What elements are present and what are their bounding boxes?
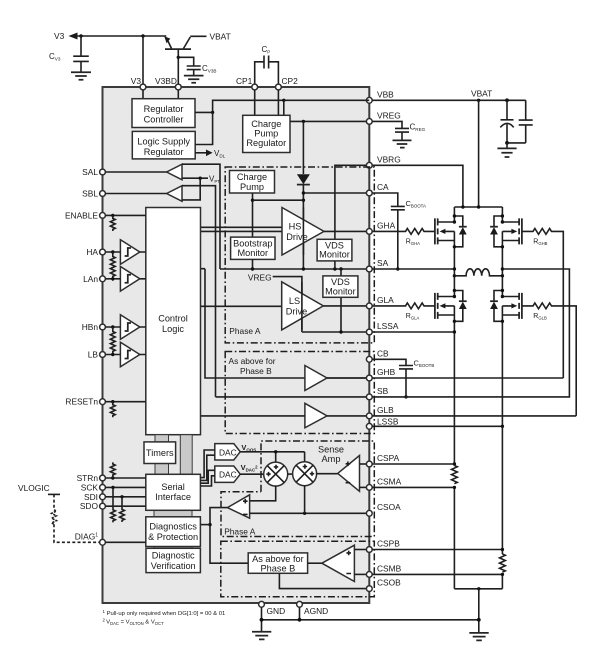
node junction dot SCK <box>111 486 114 489</box>
node junction dot VREG to bootstrap diode <box>302 120 305 123</box>
svg-text:Serial: Serial <box>161 482 185 492</box>
transistor Q_AH (left high-side NFET) <box>435 218 455 244</box>
wire HBn to buffer and control logic <box>105 326 145 328</box>
node junction dot SA vds hs <box>333 267 336 270</box>
bus control logic to serial interface <box>180 435 192 475</box>
node junction dot ENABLE <box>111 214 114 217</box>
label As above for Phase B (drive section) <box>229 356 276 376</box>
wire cap bottoms tie <box>507 142 526 144</box>
node junction dot VBAT bridge feed <box>477 99 480 102</box>
node junction dot CSPB <box>501 548 504 551</box>
node junction dot AGND rail <box>298 618 302 622</box>
node junction dot charge pump tie <box>302 199 305 202</box>
node junction dot SA vds ls <box>339 267 342 270</box>
mixer 2 (multiplier) <box>293 462 317 486</box>
wire CSMA external <box>372 486 454 488</box>
svg-text:DIAG1: DIAG1 <box>75 532 98 542</box>
svg-text:VREG: VREG <box>377 111 401 121</box>
svg-text:V3: V3 <box>131 76 142 86</box>
diagnostics and protection box <box>146 517 201 547</box>
wire LSSA external <box>372 331 454 333</box>
pin GHB <box>366 367 395 381</box>
svg-text:Interface: Interface <box>155 492 191 502</box>
wire mixer1 to mixer2 <box>287 473 293 475</box>
wire CSPB input <box>354 549 366 551</box>
svg-text:As above for: As above for <box>229 356 276 366</box>
wire CSMB external <box>372 573 502 575</box>
wire CSPB external <box>372 549 502 551</box>
pin SCK <box>81 482 106 492</box>
node junction dot LSSA vds <box>339 330 342 333</box>
svg-text:CSMA: CSMA <box>377 476 402 486</box>
resistor VLOGIC pullup (dashed) <box>52 510 57 524</box>
svg-text:Verification: Verification <box>151 561 196 571</box>
node junction dot CSMA <box>453 486 456 489</box>
wire RESETn to control logic <box>105 401 145 403</box>
node V_DL output arrow <box>195 149 225 159</box>
logic supply regulator box <box>132 131 195 159</box>
wire LB to buffer and control logic <box>105 354 145 356</box>
buffer HBn input <box>120 315 139 340</box>
node junction dot VBB into charge pump regulator <box>282 99 285 102</box>
bus timers to serial interface <box>155 464 169 475</box>
pin VREG <box>366 111 400 125</box>
node VREG label (LS drive supply) <box>248 273 302 333</box>
pin STRn <box>77 473 106 483</box>
wire mixer1 to comparator plus <box>250 485 276 500</box>
pin LB <box>88 350 106 360</box>
timers box <box>144 442 176 464</box>
wire SBL input route <box>182 186 216 397</box>
wire SB external <box>372 269 569 397</box>
ground (VBAT caps) <box>506 143 508 148</box>
transistor Q_BL (right low-side NFET) <box>502 293 522 319</box>
pin GLA <box>366 295 394 309</box>
resistor HBn to LB <box>110 327 115 356</box>
svg-text:Regulator: Regulator <box>144 104 184 114</box>
wire mixer2 down <box>304 485 306 513</box>
capacitor C_V3 <box>49 36 89 72</box>
control logic box <box>146 208 201 435</box>
diode body (Q_AH) <box>453 214 467 248</box>
svg-text:GLA: GLA <box>377 295 394 305</box>
node junction dot LSSB column <box>501 425 504 428</box>
pin HA <box>86 247 105 257</box>
wire VDS hs monitor to SA <box>334 261 336 269</box>
resistor STRn pullup <box>110 462 115 478</box>
phase B drive dash-dot boundary <box>225 352 374 434</box>
wire stub into diagnostics box <box>200 524 210 526</box>
label Sense Amp <box>318 445 344 465</box>
as above for phase B box (sense) <box>248 553 307 573</box>
svg-text:SB: SB <box>377 386 389 396</box>
op-amp sense amp A <box>338 456 360 492</box>
svg-text:Drive: Drive <box>286 232 307 242</box>
node junction dot SA hs ref <box>302 267 305 270</box>
svg-text:Regulator: Regulator <box>144 147 184 157</box>
pin SB <box>366 386 388 400</box>
pin CSOA <box>366 502 401 516</box>
op-amp sense amp B <box>322 545 355 581</box>
wire DIAG to diagnostics box <box>105 541 145 543</box>
node junction dot HBn <box>111 325 114 328</box>
wire GND to ground <box>261 607 263 631</box>
wire SDO to serial interface <box>105 505 145 507</box>
ground (C_V3B) <box>184 76 204 83</box>
bootstrap monitor box <box>231 237 275 259</box>
svg-text:Diagnostics: Diagnostics <box>149 522 197 532</box>
node junction dot regulator feed <box>211 111 214 114</box>
wire left bridge column <box>453 207 455 589</box>
svg-text:V3BD: V3BD <box>155 76 177 86</box>
node junction dot sense gnd <box>477 587 480 590</box>
pin CA <box>366 182 389 196</box>
node junction dot cap gnd <box>505 141 509 145</box>
wire LSSB external <box>372 425 502 427</box>
svg-text:Logic: Logic <box>162 324 184 334</box>
regulator controller box <box>132 99 195 128</box>
wire V_DAC to mixer 1 <box>240 473 264 475</box>
node junction dot LB <box>111 353 114 356</box>
pin GLB <box>366 405 394 419</box>
charge pump regulator box <box>243 115 290 152</box>
wire VBRG internal to VDS monitor <box>335 165 367 239</box>
buffer GLB (phase B low side) <box>305 403 327 428</box>
bus serial interface to diagnostics <box>154 510 192 517</box>
wire VBB feed to logic supply regulator <box>195 112 212 144</box>
wire SB internal line <box>216 396 367 398</box>
svg-text:Bootstrap: Bootstrap <box>233 238 272 248</box>
pin VBRG <box>366 155 400 169</box>
wire CSPA input <box>360 463 367 465</box>
wire CSPA external <box>372 463 454 465</box>
pin LSSB <box>366 417 398 430</box>
wire CP2 into charge pump regulator <box>277 90 279 115</box>
node VBAT (transistor collector) <box>190 32 230 42</box>
diode body (Q_BL) <box>490 289 504 323</box>
svg-text:GND: GND <box>267 606 286 616</box>
pin GHA <box>366 221 395 235</box>
wire V_OOS to mixers <box>240 452 304 463</box>
wire LS drive input from control logic <box>201 305 282 307</box>
diode body (Q_AL) <box>453 289 467 323</box>
svg-text:Monitor: Monitor <box>319 250 350 260</box>
svg-text:AGND: AGND <box>304 606 328 616</box>
mixer 1 (multiplier) <box>264 462 288 486</box>
diode bootstrap (VREG to CA) <box>297 174 310 184</box>
VDS monitor box (high side) <box>317 239 352 261</box>
inductor motor winding <box>454 269 502 276</box>
svg-text:SCK: SCK <box>81 482 99 492</box>
pin HBn <box>82 322 106 332</box>
IC body (main device outline) <box>103 87 370 603</box>
svg-text:LAn: LAn <box>83 274 98 284</box>
ground (GND) <box>252 632 271 640</box>
node junction dot diagnostics stub <box>208 523 211 526</box>
svg-text:Monitor: Monitor <box>237 248 268 258</box>
pin SA <box>366 258 388 272</box>
capacitor C_V3B <box>177 56 217 76</box>
svg-text:VBAT: VBAT <box>210 32 231 42</box>
wire GHB output to pin <box>327 377 366 379</box>
svg-text:GHB: GHB <box>377 367 396 377</box>
wire comparator output route to diagnostics <box>210 508 248 564</box>
wire SDI to serial interface <box>105 496 145 498</box>
sense phase B dash-dot boundary <box>221 541 374 597</box>
pin CSOB <box>366 578 401 592</box>
svg-text:HBn: HBn <box>82 322 99 332</box>
transistor Q1 (external NPN pass transistor) <box>164 36 191 84</box>
wire charge pump out tie <box>253 199 304 201</box>
node junction dot CSPA <box>453 462 456 465</box>
resistor R_SENSEA <box>452 466 458 484</box>
svg-text:Phase B: Phase B <box>261 563 296 573</box>
pin LSSA <box>366 321 398 335</box>
resistor ENABLE pulldown <box>110 215 115 231</box>
svg-text:Amp: Amp <box>322 454 341 464</box>
capacitor C_REG <box>372 121 425 140</box>
DAC V_OOS <box>215 443 256 460</box>
capacitor C_P (charge pump flying cap) <box>255 45 279 84</box>
svg-text:Drive: Drive <box>286 307 307 317</box>
svg-text:CSPB: CSPB <box>377 539 400 549</box>
ground (C_REG) <box>393 140 412 147</box>
buffer SBL output <box>167 186 182 202</box>
wire sense amp output to mixer2 <box>316 473 338 475</box>
svg-text:VBAT: VBAT <box>471 89 492 99</box>
node junction dot LSSA column <box>453 330 456 333</box>
svg-text:SAL: SAL <box>82 167 98 177</box>
pin SDI <box>84 492 105 502</box>
wire GLB input from control logic <box>201 415 305 417</box>
pin SAL <box>82 167 105 177</box>
wire V3 pin into regulator controller <box>142 90 144 99</box>
svg-text:RESETn: RESETn <box>65 397 98 407</box>
pin VBB <box>366 90 394 104</box>
svg-text:GLB: GLB <box>377 405 394 415</box>
buffer LB input <box>120 342 139 367</box>
wire sense gnd drop <box>478 589 480 633</box>
buffer HA input <box>120 240 139 265</box>
wire bootstrap monitor to SA <box>252 259 254 269</box>
node V_PT <box>182 175 220 200</box>
resistor RESETn pulldown <box>110 402 115 418</box>
buffer SAL output <box>167 164 182 180</box>
wire sense amp B output to box <box>308 562 322 564</box>
svg-text:VBB: VBB <box>377 90 394 100</box>
pin CSMA <box>366 476 401 490</box>
node junction dot GND rail <box>260 618 264 622</box>
svg-text:LB: LB <box>88 350 99 360</box>
wire sense bottom tie <box>454 588 502 590</box>
svg-text:Controller: Controller <box>144 115 184 125</box>
node junction dot SB inductor <box>501 274 504 277</box>
svg-text:LSSA: LSSA <box>377 321 399 331</box>
wire GLB external <box>372 415 576 417</box>
diagnostic verification box <box>146 548 200 572</box>
transistor Q_AL (left low-side NFET) <box>435 293 455 319</box>
resistor R_GLB <box>522 303 576 416</box>
svg-text:VLOGIC: VLOGIC <box>18 483 50 493</box>
svg-text:SA: SA <box>377 258 389 268</box>
svg-text:1 Pull-up only required when D: 1 Pull-up only required when DG[1:0] = 0… <box>103 609 226 617</box>
wire CSOB to box <box>279 573 366 588</box>
wire ENABLE to control logic <box>105 214 145 216</box>
svg-text:DAC: DAC <box>219 470 237 480</box>
capacitor C2 (ceramic) <box>519 100 533 143</box>
node junction dot SA inductor <box>453 274 456 277</box>
svg-text:CSOB: CSOB <box>377 578 401 588</box>
node junction dot C_V3 <box>79 34 82 37</box>
wire VBB stub into charge pump regulator <box>283 100 285 115</box>
node junction dot V3 pin drop <box>141 34 144 37</box>
charge pump box (phase A) <box>230 171 275 194</box>
svg-text:LSSB: LSSB <box>377 417 399 427</box>
wire regulator controller to VBB rail <box>195 100 369 112</box>
pin CP2 <box>276 76 299 90</box>
wires serial interface to DACs <box>200 450 214 486</box>
wire VBB to VBAT rail <box>372 99 526 101</box>
node junction dot LAn <box>111 277 114 280</box>
capacitor C_BOOTA <box>372 193 426 271</box>
svg-text:Phase B: Phase B <box>240 366 272 376</box>
comparator A <box>227 495 249 518</box>
wire V3 rail <box>76 35 166 37</box>
node junction dot VBRG feed <box>461 205 464 208</box>
pin RESETn <box>65 397 105 407</box>
svg-text:Phase A: Phase A <box>229 326 261 336</box>
pin SDO <box>80 501 106 511</box>
pin CSPB <box>366 539 400 553</box>
svg-text:CSOA: CSOA <box>377 502 401 512</box>
wire VREG rail from charge pump regulator to VREG pin <box>290 120 366 122</box>
svg-text:CP2: CP2 <box>282 76 299 86</box>
wire CSMA input <box>360 486 367 488</box>
resistor R_GHB <box>522 229 563 379</box>
node junction dot CA <box>302 191 305 194</box>
pin GND <box>259 601 286 616</box>
svg-text:ENABLE: ENABLE <box>65 210 98 220</box>
wire CSMB input <box>354 573 366 575</box>
resistor SCK pulldown <box>111 487 116 522</box>
wire STRn to serial interface <box>105 477 145 479</box>
pin V3 <box>131 76 146 90</box>
resistor R_GLA <box>372 303 435 320</box>
svg-text:CSMB: CSMB <box>377 563 402 573</box>
pin SBL <box>82 189 105 199</box>
svg-text:Diagnostic: Diagnostic <box>152 551 195 561</box>
svg-text:Pump: Pump <box>240 182 264 192</box>
wire bridge top rail <box>454 206 502 208</box>
svg-text:SDO: SDO <box>80 501 99 511</box>
op-amp LS Drive <box>282 282 324 330</box>
node junction dot RESETn <box>111 400 114 403</box>
ground (C_V3) <box>71 72 91 79</box>
wire CP1 into charge pump regulator <box>254 90 256 115</box>
sense phase A dash-dot boundary (notched) <box>221 441 374 537</box>
wire GHB external <box>372 377 563 379</box>
svg-text:GHA: GHA <box>377 221 396 231</box>
wire SCK to serial interface <box>105 486 145 488</box>
pin ENABLE <box>65 210 105 220</box>
node junction dot SA column <box>453 267 456 270</box>
DAC V_DAC <box>215 463 258 482</box>
node V3 (off-page arrow) <box>54 31 78 41</box>
wire SA external <box>372 268 454 270</box>
svg-text:SBL: SBL <box>82 189 98 199</box>
VDS monitor box (low side) <box>323 276 358 297</box>
svg-text:Phase A: Phase A <box>224 527 256 537</box>
wire HS drive input lines from control logic <box>201 227 283 231</box>
node junction dot V_OOS <box>274 450 277 453</box>
capacitor C_BOOTB <box>372 359 434 399</box>
svg-text:& Protection: & Protection <box>148 532 198 542</box>
node junction dot charge pump out <box>251 199 254 202</box>
node VLOGIC <box>18 483 60 494</box>
svg-text:Regulator: Regulator <box>246 138 286 148</box>
bus control logic to timers <box>155 435 169 442</box>
wire HS drive output GHA <box>324 230 366 232</box>
svg-text:Logic Supply: Logic Supply <box>137 137 190 147</box>
buffer LAn input <box>120 267 139 292</box>
resistor SDI pulldown <box>120 497 125 522</box>
pin V3BD <box>155 76 181 90</box>
svg-text:Control: Control <box>158 314 188 324</box>
wire SAL input route <box>182 164 220 269</box>
svg-text:LS: LS <box>289 296 300 306</box>
wire V3BD pin into regulator controller <box>177 90 179 99</box>
wire GLB output to pin <box>327 415 366 417</box>
svg-text:Charge: Charge <box>237 172 267 182</box>
wire LS drive output GLA <box>323 305 366 307</box>
ground (sense) <box>469 633 488 641</box>
resistor R_GHA <box>372 229 435 246</box>
svg-text:DAC: DAC <box>219 447 237 457</box>
wire SBL pin to buffer <box>105 193 166 195</box>
svg-text:CP1: CP1 <box>236 76 253 86</box>
wire diode cathode to CA pin <box>303 185 366 269</box>
wire VLOGIC dashed pullup <box>53 494 55 509</box>
node junction dot CSMB <box>501 573 504 576</box>
svg-text:Pump: Pump <box>254 129 278 139</box>
node junction dot HA <box>111 250 114 253</box>
pin CSMB <box>366 563 401 577</box>
node junction dot VBAT feed <box>477 205 480 208</box>
node junction dot SB column <box>501 267 504 270</box>
phase A drive dash-dot boundary <box>225 167 374 343</box>
wire LAn to buffer and control logic <box>105 278 145 280</box>
wire VREG feed down to bootstrap diode <box>302 121 304 174</box>
svg-text:Timers: Timers <box>146 448 174 458</box>
wire SAL pin to buffer <box>105 171 166 173</box>
wire VBAT down to bridge <box>478 100 480 207</box>
wire AGND rail <box>262 607 479 620</box>
wire charge pump to bootstrap monitor <box>252 193 254 237</box>
svg-text:Sense: Sense <box>318 445 344 455</box>
op-amp HS Drive <box>282 208 324 256</box>
wire comparator minus to CSOA <box>250 512 367 514</box>
node junction dot VBAT cap1 <box>505 98 509 102</box>
serial interface box <box>146 474 201 510</box>
bus diagnostics to diagnostic verification <box>154 547 192 549</box>
svg-text:HA: HA <box>86 247 98 257</box>
diode body (Q_BH) <box>490 214 504 248</box>
buffer GHB (phase B high side) <box>305 366 327 391</box>
pin DIAG <box>75 532 106 546</box>
svg-text:VREG: VREG <box>248 273 272 283</box>
wire HA to buffer and control logic <box>105 251 145 253</box>
svg-text:HS: HS <box>289 222 302 232</box>
